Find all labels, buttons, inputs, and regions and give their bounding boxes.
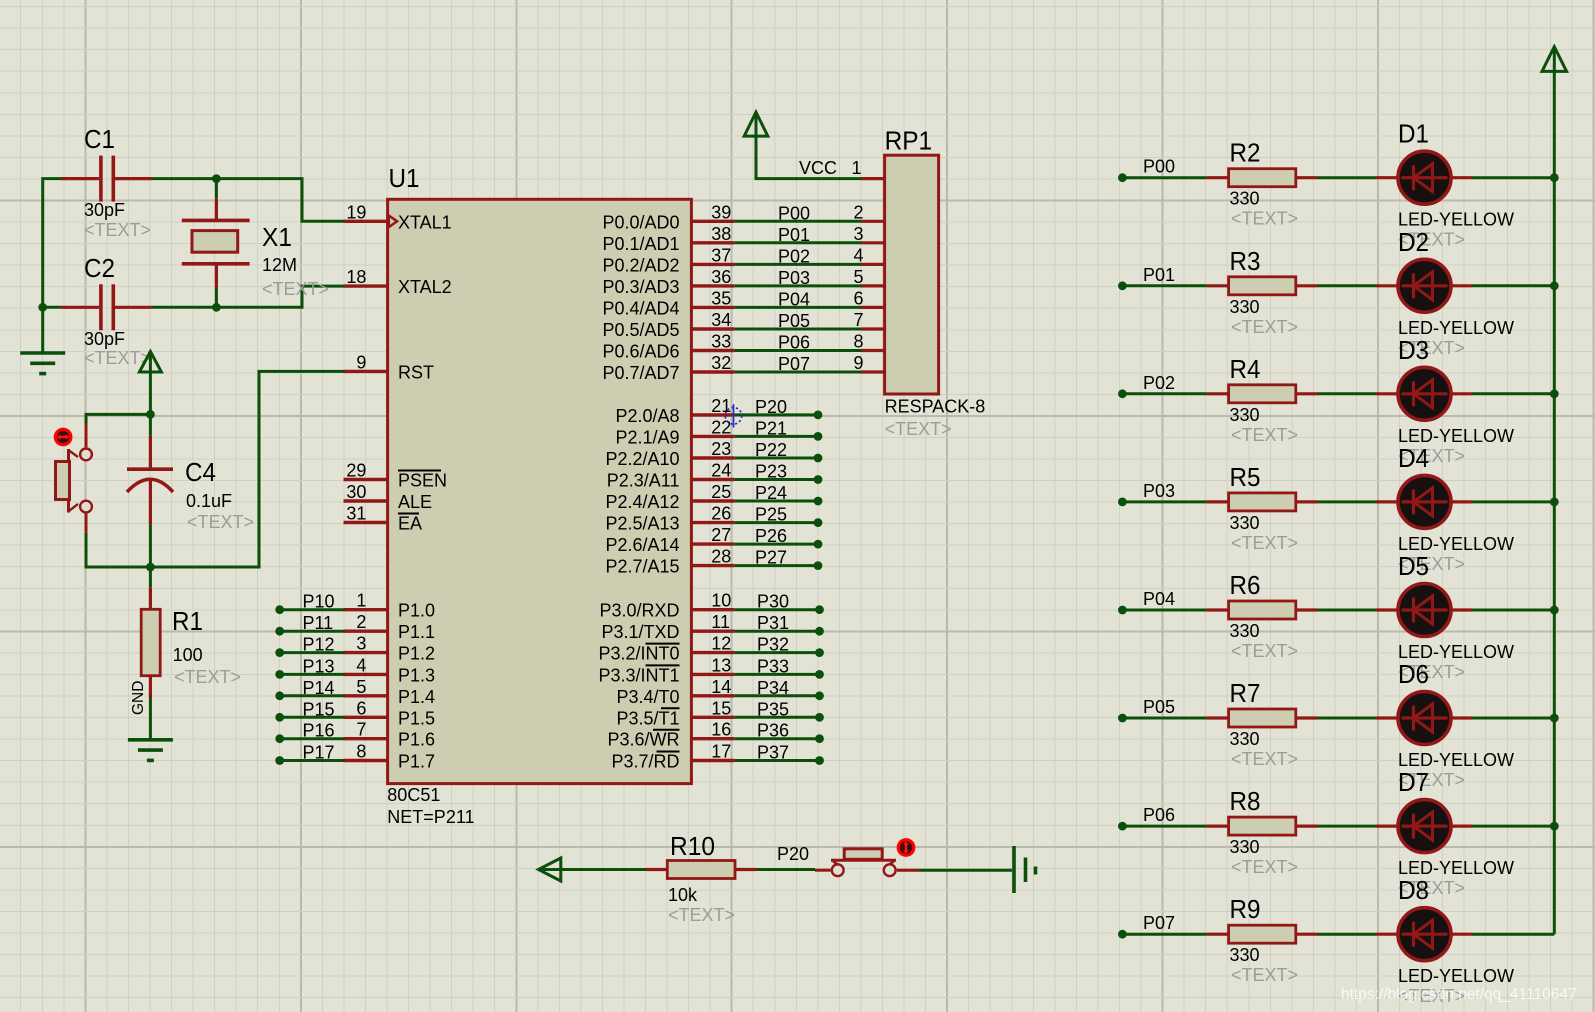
svg-text:25: 25 (711, 482, 731, 502)
node P04 (LED row) dot (1118, 606, 1127, 615)
node P03 (LED row) dot (1118, 498, 1127, 507)
wire P26 (734, 543, 818, 546)
svg-text:<TEXT>: <TEXT> (174, 667, 241, 687)
svg-text:30pF: 30pF (84, 200, 125, 220)
svg-text:P1.0: P1.0 (398, 601, 435, 621)
svg-text:9: 9 (356, 352, 366, 372)
U1 pin 8 (P1.7) (344, 759, 388, 762)
U1 pin 5 (P1.4) (344, 694, 388, 697)
svg-text:P11: P11 (303, 613, 334, 633)
svg-text:EA: EA (398, 514, 422, 534)
U1 pin 24 (P2.3/A11) (691, 478, 734, 481)
resistor R2 (1207, 176, 1229, 179)
svg-text:35: 35 (711, 288, 731, 308)
svg-text:D5: D5 (1398, 551, 1429, 581)
svg-text:P0.3/AD3: P0.3/AD3 (602, 277, 679, 297)
LED D1 (1377, 176, 1399, 179)
svg-text:VCC: VCC (799, 158, 837, 178)
U1 pin 34 (P0.5/AD5) (691, 327, 734, 330)
U1 pin 19 (XTAL1) (344, 220, 388, 223)
wire P34 (734, 694, 819, 697)
wire button to ground (919, 869, 1012, 872)
svg-text:P35: P35 (757, 699, 789, 719)
svg-text:P24: P24 (755, 483, 787, 503)
U1 pin 27 (P2.6/A14) (691, 542, 734, 545)
svg-text:P2.0/A8: P2.0/A8 (615, 406, 679, 426)
wire P22 (734, 457, 818, 460)
svg-text:P12: P12 (303, 635, 335, 655)
wire P1.7 (280, 759, 344, 762)
svg-text:5: 5 (853, 267, 863, 287)
wire D3 to bus (1472, 392, 1554, 395)
node P07 (LED row) dot (1118, 930, 1127, 939)
svg-text:P33: P33 (757, 656, 789, 676)
svg-text:39: 39 (711, 202, 731, 222)
svg-text:XTAL2: XTAL2 (398, 277, 452, 297)
svg-text:PSEN: PSEN (398, 471, 447, 491)
push button (reset) (85, 424, 88, 448)
svg-text:P2.7/A15: P2.7/A15 (605, 557, 679, 577)
svg-text:P0.0/AD0: P0.0/AD0 (602, 212, 679, 232)
LED D3 (1377, 392, 1399, 395)
wire D1 to bus (1472, 176, 1554, 179)
wire P03 to R5 (1122, 500, 1207, 503)
svg-text:P16: P16 (303, 721, 335, 741)
svg-text:14: 14 (711, 677, 731, 697)
svg-text:7: 7 (356, 720, 366, 740)
U1 pin 17 (P3.7/RD) (691, 759, 734, 762)
wire P06 to R8 (1122, 825, 1207, 828)
node P24 end dot (814, 497, 823, 506)
svg-text:27: 27 (711, 525, 731, 545)
svg-text:19: 19 (346, 202, 366, 222)
svg-text:32: 32 (711, 353, 731, 373)
svg-text:R6: R6 (1230, 570, 1261, 600)
svg-text:P2.1/A9: P2.1/A9 (615, 427, 679, 447)
U1 pin 7 (P1.6) (344, 737, 388, 740)
wire P1.1 (280, 630, 344, 633)
U1 pin 4 (P1.3) (344, 673, 388, 676)
svg-text:R9: R9 (1230, 894, 1261, 924)
overline RD (657, 751, 680, 753)
svg-text:P02: P02 (778, 246, 810, 266)
svg-text:D8: D8 (1398, 875, 1429, 905)
svg-text:NET=P211: NET=P211 (387, 807, 474, 827)
wire P21 (734, 435, 818, 438)
wire C4 top (149, 414, 152, 435)
svg-text:<TEXT>: <TEXT> (668, 905, 735, 925)
svg-text:P03: P03 (778, 268, 810, 288)
wire P37 (734, 759, 819, 762)
svg-text:P07: P07 (1143, 913, 1175, 933)
svg-text:<TEXT>: <TEXT> (187, 512, 254, 532)
svg-text:4: 4 (853, 245, 863, 265)
svg-text:P1.1: P1.1 (398, 622, 435, 642)
svg-text:P20: P20 (755, 397, 787, 417)
U1 pin 35 (P0.4/AD4) (691, 306, 734, 309)
junction LED bus (1550, 281, 1559, 290)
node P37 end dot (815, 756, 824, 765)
U1 pin 25 (P2.4/A12) (691, 499, 734, 502)
svg-text:P01: P01 (778, 225, 810, 245)
svg-text:P00: P00 (1143, 157, 1175, 177)
RP1 pin 8 (862, 349, 885, 352)
svg-text:P06: P06 (778, 333, 810, 353)
svg-text:24: 24 (711, 461, 731, 481)
wire P23 (734, 478, 818, 481)
wire P33 (734, 673, 819, 676)
resistor R4 (1207, 392, 1229, 395)
svg-text:9: 9 (853, 353, 863, 373)
wire P32 (734, 651, 819, 654)
svg-text:6: 6 (853, 288, 863, 308)
U1 pin 16 (P3.6/WR) (691, 737, 734, 740)
resistor R3 (1207, 284, 1229, 287)
svg-text:D1: D1 (1398, 119, 1429, 149)
node P10 end dot (275, 605, 284, 614)
svg-text:30pF: 30pF (84, 329, 125, 349)
svg-text:P34: P34 (757, 678, 789, 698)
push button (P20) (815, 869, 831, 872)
svg-text:<TEXT>: <TEXT> (84, 220, 151, 240)
node P15 end dot (275, 713, 284, 722)
resistor R8 (1207, 824, 1229, 827)
svg-text:3: 3 (853, 224, 863, 244)
svg-text:21: 21 (711, 396, 731, 416)
svg-text:11: 11 (711, 612, 730, 632)
U1 pin 31 (EA) (344, 521, 388, 524)
power arrow (left, R10 row) (539, 858, 561, 881)
svg-text:P25: P25 (755, 505, 787, 525)
svg-text:34: 34 (711, 310, 731, 330)
junction reset bottom (146, 563, 155, 572)
svg-text:P3.1/TXD: P3.1/TXD (601, 622, 679, 642)
junction LED bus (1550, 606, 1559, 615)
node P25 end dot (814, 518, 823, 527)
overline INT0 (646, 643, 680, 645)
svg-text:D4: D4 (1398, 443, 1429, 473)
svg-text:22: 22 (711, 417, 731, 437)
svg-text:P3.4/T0: P3.4/T0 (616, 687, 679, 707)
svg-text:P07: P07 (778, 354, 810, 374)
svg-text:33: 33 (711, 332, 731, 352)
PSEN overline (398, 470, 441, 472)
svg-text:1: 1 (851, 158, 861, 178)
wire P25 (734, 521, 818, 524)
svg-text:P30: P30 (757, 592, 789, 612)
svg-text:8: 8 (356, 742, 366, 762)
RP1 pin 5 (862, 284, 885, 287)
svg-text:80C51: 80C51 (387, 785, 440, 805)
svg-text:P27: P27 (755, 548, 787, 568)
svg-text:17: 17 (711, 742, 731, 762)
svg-text:P0.4/AD4: P0.4/AD4 (602, 298, 679, 318)
svg-text:R3: R3 (1230, 246, 1261, 276)
svg-text:P1.3: P1.3 (398, 665, 435, 685)
node P32 end dot (815, 648, 824, 657)
ground (crystal section) (20, 351, 65, 355)
wire P05 to R7 (1122, 717, 1207, 720)
wire P1.3 (280, 673, 344, 676)
svg-text:RP1: RP1 (885, 126, 933, 156)
node P17 end dot (275, 756, 284, 765)
svg-text:https://blog.csdn.net/qq_41110: https://blog.csdn.net/qq_41110647 (1341, 986, 1577, 1003)
svg-text:5: 5 (356, 677, 366, 697)
node P13 end dot (275, 670, 284, 679)
wire arrow to R10 (561, 868, 646, 871)
wire P04 to R6 (1122, 609, 1207, 612)
junction X1 top (212, 174, 221, 183)
wire P1.6 (280, 737, 344, 740)
junction reset top (146, 410, 155, 419)
svg-text:P3.0/RXD: P3.0/RXD (599, 601, 679, 621)
RP1 pin 1 (862, 177, 885, 180)
wire P1.5 (280, 716, 344, 719)
wire P02 to R4 (1122, 392, 1207, 395)
LED D2 (1377, 284, 1399, 287)
svg-text:D2: D2 (1398, 227, 1429, 257)
node P27 end dot (814, 561, 823, 570)
node P02 (LED row) dot (1118, 389, 1127, 398)
svg-text:2: 2 (356, 612, 366, 632)
resistor R9 (1207, 933, 1229, 936)
wire R9 to D8 (1318, 933, 1377, 936)
U1 pin 29 (PSEN) (344, 478, 388, 481)
svg-text:18: 18 (346, 267, 366, 287)
node P21 end dot (814, 432, 823, 441)
svg-text:X1: X1 (262, 222, 292, 252)
svg-text:<TEXT>: <TEXT> (262, 279, 329, 299)
svg-text:D7: D7 (1398, 767, 1429, 797)
svg-text:26: 26 (711, 504, 731, 524)
svg-text:10: 10 (711, 591, 731, 611)
U1 pin 22 (P2.1/A9) (691, 435, 734, 438)
wire P03 to RP1 (734, 284, 861, 287)
svg-text:P3.6/WR: P3.6/WR (607, 730, 679, 750)
svg-text:C4: C4 (185, 457, 216, 487)
junction LED bus (1550, 714, 1559, 723)
svg-text:<TEXT>: <TEXT> (1231, 209, 1298, 229)
svg-text:330: 330 (1230, 837, 1260, 857)
node P00 (LED row) dot (1118, 173, 1127, 182)
node P14 end dot (275, 691, 284, 700)
U1 pin 39 (P0.0/AD0) (691, 220, 734, 223)
RP1 pin 7 (862, 327, 885, 330)
svg-text:RST: RST (398, 362, 434, 382)
ground (P20 row, rotated) (1012, 846, 1016, 893)
wire P36 (734, 737, 819, 740)
RP1 pin 4 (862, 263, 885, 266)
svg-text:1: 1 (356, 591, 366, 611)
wire P00 to RP1 (734, 220, 861, 223)
svg-text:P20: P20 (777, 844, 809, 864)
svg-text:P14: P14 (303, 678, 335, 698)
U1 pin 12 (P3.2/INT0) (691, 651, 734, 654)
wire LED bus vertical (1553, 71, 1556, 934)
svg-text:330: 330 (1230, 405, 1260, 425)
svg-text:P32: P32 (757, 635, 789, 655)
node P33 end dot (815, 670, 824, 679)
wire P00 to R2 (1122, 176, 1207, 179)
svg-text:4: 4 (356, 655, 366, 675)
svg-text:R1: R1 (172, 606, 203, 636)
node P16 end dot (275, 734, 284, 743)
wire top row to XTAL1 (152, 179, 344, 222)
svg-text:GND: GND (130, 681, 147, 715)
junction LED bus (1550, 822, 1559, 831)
junction LED bus (1550, 389, 1559, 398)
svg-text:<TEXT>: <TEXT> (1231, 857, 1298, 877)
U1 pin 15 (P3.5/T1) (691, 716, 734, 719)
svg-text:P03: P03 (1143, 481, 1175, 501)
node P23 end dot (814, 475, 823, 484)
svg-text:330: 330 (1230, 189, 1260, 209)
svg-text:P3.2/INT0: P3.2/INT0 (598, 644, 679, 664)
svg-text:P17: P17 (303, 743, 335, 763)
RP1 pin 2 (862, 220, 885, 223)
svg-text:29: 29 (346, 461, 366, 481)
svg-text:P02: P02 (1143, 373, 1175, 393)
LED D6 (1377, 716, 1399, 719)
svg-text:P22: P22 (755, 440, 787, 460)
node P35 end dot (815, 713, 824, 722)
wire D7 to bus (1472, 825, 1554, 828)
wire D5 to bus (1472, 609, 1554, 612)
svg-text:D6: D6 (1398, 659, 1429, 689)
svg-text:R10: R10 (670, 831, 715, 861)
svg-text:12: 12 (711, 634, 731, 654)
svg-text:R7: R7 (1230, 678, 1261, 708)
ground (R1) (128, 738, 173, 742)
wire VCC to RP1 pin 1 (756, 136, 862, 178)
wire P30 (734, 608, 819, 611)
node P05 (LED row) dot (1118, 714, 1127, 723)
svg-text:0.1uF: 0.1uF (186, 491, 232, 511)
wire P1.0 (280, 608, 344, 611)
EA overline (398, 513, 419, 515)
svg-text:P2.2/A10: P2.2/A10 (605, 449, 679, 469)
op-amp U1 body (80C51 MCU) (388, 199, 692, 783)
wire R3 to D2 (1318, 284, 1377, 287)
wire P27 (734, 564, 818, 567)
U1 pin 26 (P2.5/A13) (691, 521, 734, 524)
resistor pack RP1 body (885, 155, 939, 394)
interactive marker (P20 button) (897, 838, 916, 857)
wire bottom row to XTAL2 (152, 286, 344, 307)
svg-text:2: 2 (853, 202, 863, 222)
svg-text:C2: C2 (84, 253, 115, 283)
svg-text:ALE: ALE (398, 492, 432, 512)
svg-text:C1: C1 (84, 124, 115, 154)
svg-text:31: 31 (346, 504, 366, 524)
wire C1-left / C2-left / ground vertical (43, 179, 62, 352)
node P06 (LED row) dot (1118, 822, 1127, 831)
wire P31 (734, 630, 819, 633)
U1 pin 1 (P1.0) (344, 608, 388, 611)
svg-text:P2.4/A12: P2.4/A12 (605, 492, 679, 512)
wire reset bottom / to RST pin (86, 371, 344, 567)
resistor R5 (1207, 500, 1229, 503)
svg-text:330: 330 (1230, 513, 1260, 533)
wire P01 to RP1 (734, 241, 861, 244)
junction LED bus (1550, 498, 1559, 507)
U1 pin 23 (P2.2/A10) (691, 456, 734, 459)
interactive marker (reset button) (54, 428, 73, 447)
svg-text:<TEXT>: <TEXT> (1231, 641, 1298, 661)
node P31 end dot (815, 627, 824, 636)
svg-text:330: 330 (1230, 945, 1260, 965)
svg-text:P01: P01 (1143, 265, 1175, 285)
U1 pin 21 (P2.0/A8) (691, 413, 734, 416)
svg-text:12M: 12M (262, 255, 297, 275)
wire R4 to D3 (1318, 392, 1377, 395)
selection cursor (blue) (725, 404, 742, 427)
resistor R7 (1207, 716, 1229, 719)
U1 pin 37 (P0.2/AD2) (691, 263, 734, 266)
svg-text:P04: P04 (1143, 589, 1175, 609)
svg-text:36: 36 (711, 267, 731, 287)
node P26 end dot (814, 540, 823, 549)
resistor R10 (646, 868, 667, 871)
power arrow VCC (RP1) (744, 112, 768, 136)
RP1 pin 9 (862, 370, 885, 373)
capacitor C2 (62, 306, 100, 309)
svg-text:8: 8 (853, 332, 863, 352)
svg-text:P05: P05 (778, 311, 810, 331)
svg-text:U1: U1 (389, 163, 420, 193)
RP1 pin 3 (862, 241, 885, 244)
wire reset top to button (86, 414, 150, 423)
svg-text:330: 330 (1230, 621, 1260, 641)
svg-text:P1.5: P1.5 (398, 708, 435, 728)
svg-text:R8: R8 (1230, 786, 1261, 816)
U1 pin 18 (XTAL2) (344, 284, 388, 287)
svg-text:P1.4: P1.4 (398, 687, 435, 707)
svg-text:P3.5/T1: P3.5/T1 (616, 708, 679, 728)
wire P04 to RP1 (734, 306, 861, 309)
svg-text:P23: P23 (755, 462, 787, 482)
capacitor C1 (62, 177, 100, 180)
svg-text:P13: P13 (303, 656, 335, 676)
junction X1 bottom (212, 303, 221, 312)
RP1 pin 6 (862, 306, 885, 309)
U1 pin 10 (P3.0/RXD) (691, 608, 734, 611)
svg-text:P0.2/AD2: P0.2/AD2 (602, 255, 679, 275)
wire P20 (734, 413, 818, 416)
svg-text:RESPACK-8: RESPACK-8 (885, 397, 986, 417)
wire P05 to RP1 (734, 328, 861, 331)
wire P07 to R9 (1122, 933, 1207, 936)
svg-text:P0.1/AD1: P0.1/AD1 (602, 234, 679, 254)
svg-text:LED-YELLOW: LED-YELLOW (1398, 966, 1514, 986)
svg-text:330: 330 (1230, 729, 1260, 749)
node P01 (LED row) dot (1118, 281, 1127, 290)
wire P02 to RP1 (734, 263, 861, 266)
U1 pin 30 (ALE) (344, 499, 388, 502)
svg-text:P1.6: P1.6 (398, 730, 435, 750)
junction LED bus (1550, 173, 1559, 182)
svg-text:<TEXT>: <TEXT> (1231, 965, 1298, 985)
svg-text:XTAL1: XTAL1 (398, 212, 452, 232)
LED D5 (1377, 608, 1399, 611)
svg-text:<TEXT>: <TEXT> (1231, 749, 1298, 769)
svg-text:<TEXT>: <TEXT> (885, 419, 952, 439)
U1 pin 3 (P1.2) (344, 651, 388, 654)
svg-text:6: 6 (356, 698, 366, 718)
svg-text:<TEXT>: <TEXT> (1231, 425, 1298, 445)
wire P01 to R3 (1122, 284, 1207, 287)
wire R10 to button (757, 868, 816, 871)
